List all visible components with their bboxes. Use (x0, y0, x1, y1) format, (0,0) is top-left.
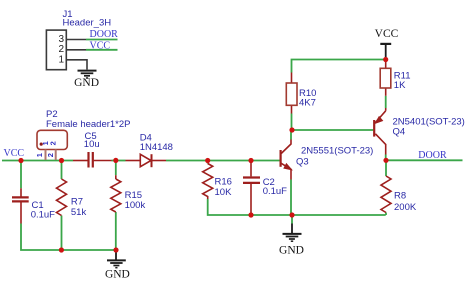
svg-text:200K: 200K (394, 202, 417, 213)
svg-text:VCC: VCC (4, 148, 25, 159)
svg-text:R8: R8 (394, 191, 406, 202)
svg-text:R16: R16 (215, 176, 232, 187)
svg-text:100k: 100k (125, 200, 146, 211)
svg-text:Header_3H: Header_3H (63, 18, 112, 29)
svg-text:DOOR: DOOR (418, 150, 447, 161)
svg-text:4K7: 4K7 (299, 97, 316, 108)
svg-text:2: 2 (49, 141, 58, 145)
svg-text:2: 2 (58, 44, 64, 55)
svg-text:1: 1 (35, 153, 44, 157)
svg-text:Q4: Q4 (393, 127, 406, 138)
svg-text:VCC: VCC (375, 28, 399, 40)
svg-text:GND: GND (279, 245, 304, 257)
svg-text:0.1uF: 0.1uF (263, 186, 287, 197)
svg-text:51k: 51k (71, 207, 87, 218)
svg-text:Q3: Q3 (296, 156, 309, 167)
svg-text:10u: 10u (84, 139, 100, 150)
svg-text:10K: 10K (215, 187, 233, 198)
svg-text:R7: R7 (71, 197, 83, 208)
svg-text:2: 2 (46, 153, 55, 157)
svg-text:0.1uF: 0.1uF (31, 209, 55, 220)
svg-text:VCC: VCC (90, 41, 111, 52)
svg-text:GND: GND (105, 268, 130, 280)
svg-text:1K: 1K (394, 80, 406, 91)
svg-text:Female header1*2P: Female header1*2P (46, 119, 131, 130)
svg-text:1: 1 (58, 55, 64, 66)
svg-text:DOOR: DOOR (90, 29, 119, 40)
svg-text:1N4148: 1N4148 (140, 142, 173, 153)
svg-text:GND: GND (74, 77, 99, 89)
svg-text:2N5551(SOT-23): 2N5551(SOT-23) (301, 145, 373, 156)
